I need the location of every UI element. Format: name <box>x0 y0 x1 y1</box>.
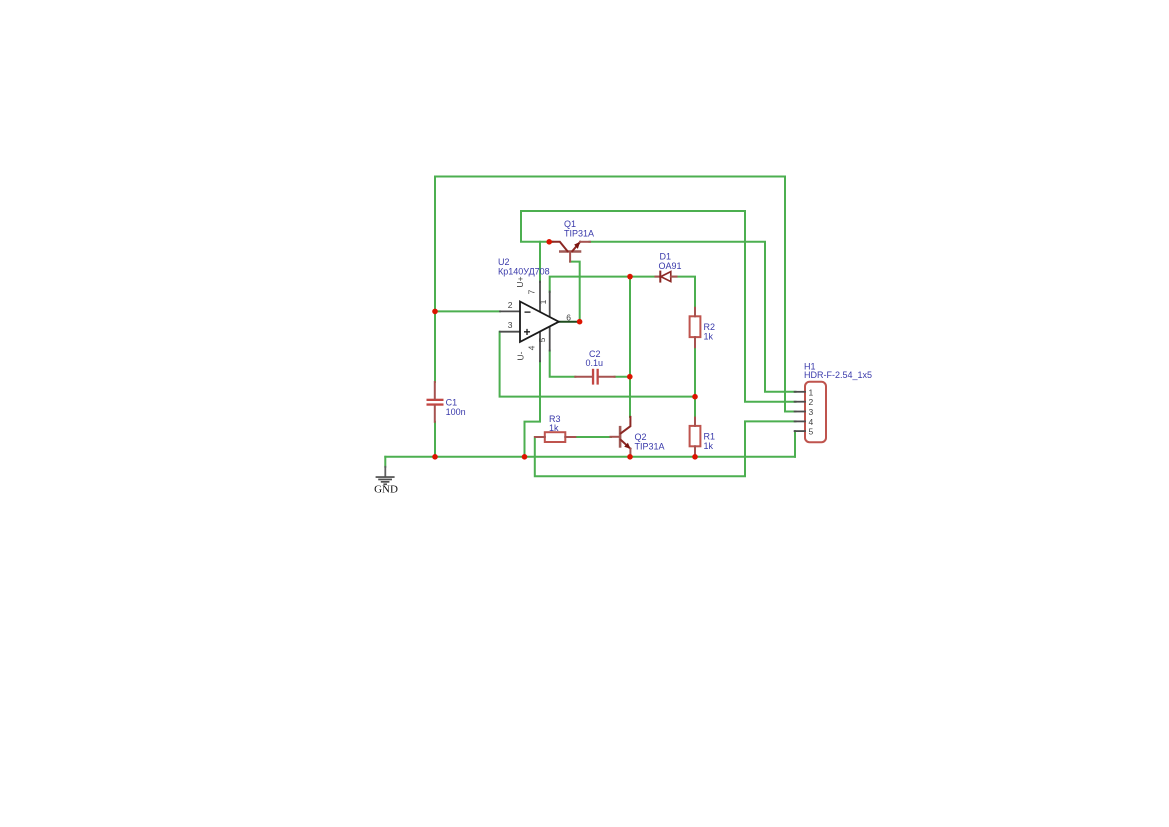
op-amp U1 pin 6 output line <box>559 321 580 323</box>
transistor Q1 <box>552 242 590 262</box>
wire opamp pin2 input <box>435 310 500 312</box>
wire opamp pin7 branch <box>539 242 541 282</box>
svg-text:U-: U- <box>516 351 526 360</box>
svg-text:5: 5 <box>809 427 814 437</box>
op-amp U1 pin 3 line <box>500 331 520 333</box>
svg-text:TIP31A: TIP31A <box>635 442 665 452</box>
svg-text:2: 2 <box>508 300 513 310</box>
svg-text:TIP31A: TIP31A <box>564 229 594 239</box>
svg-text:U2: U2 <box>498 257 510 267</box>
svg-text:1: 1 <box>809 387 814 397</box>
capacitor C2 plates <box>592 369 599 385</box>
wire opamp pin5 to C2 <box>550 351 576 377</box>
wire top rail to H1 pin3 <box>785 177 796 412</box>
wire R2 bottom to R1 top <box>694 347 696 418</box>
wire second rail <box>521 211 745 242</box>
svg-text:+: + <box>524 325 531 339</box>
resistor R1 <box>690 426 701 446</box>
ground symbol <box>376 467 395 485</box>
capacitor C2 leads <box>575 376 592 378</box>
wire opamp pin4 to GND rail <box>525 361 541 457</box>
svg-text:OA91: OA91 <box>659 261 682 271</box>
op-amp U1 pin 2 line <box>500 310 520 312</box>
svg-text:4: 4 <box>809 417 814 427</box>
junction dots <box>432 239 698 460</box>
wire Q1 base to opamp output <box>570 262 580 322</box>
wire opamp pin1 to D1 net <box>550 277 695 308</box>
svg-text:HDR-F-2.54_1x5: HDR-F-2.54_1x5 <box>804 370 872 380</box>
svg-text:1k: 1k <box>549 423 559 433</box>
svg-text:2: 2 <box>809 397 814 407</box>
op-amp U1 pin 4 line <box>539 332 541 362</box>
svg-text:1k: 1k <box>704 331 714 341</box>
connector H1 body <box>805 382 826 442</box>
wire mid column (D1 node to Q2 collector) <box>629 277 631 417</box>
resistor R2 <box>690 316 701 337</box>
svg-text:1k: 1k <box>704 441 714 451</box>
wire R3 to Q2 base <box>575 436 611 438</box>
op-amp U1 pin 5 line <box>549 325 551 351</box>
capacitor C1 plates <box>427 399 444 406</box>
svg-text:4: 4 <box>527 345 537 350</box>
svg-text:GND: GND <box>374 483 398 495</box>
op-amp U1 pin 7 line <box>539 282 541 313</box>
wire top rail <box>435 176 785 178</box>
svg-text:Q2: Q2 <box>635 432 647 442</box>
svg-text:Кр140УД708: Кр140УД708 <box>498 267 550 277</box>
svg-text:U+: U+ <box>515 276 525 287</box>
wire left vertical upper (top rail to C1) <box>434 177 436 383</box>
wire Q1 emitter to H1 pin1 <box>590 242 796 392</box>
svg-text:Q1: Q1 <box>564 219 576 229</box>
wire left vertical lower (C1 to GND rail) <box>434 422 436 457</box>
connector H1 pin stubs <box>795 392 805 431</box>
wire opamp pin3 feedback <box>500 332 695 397</box>
svg-text:100n: 100n <box>446 407 466 417</box>
svg-text:−: − <box>524 305 531 319</box>
op-amp U1 pin 1 line <box>549 292 551 319</box>
svg-text:5: 5 <box>537 337 547 342</box>
wire second rail to H1 pin2 <box>745 211 796 402</box>
op-amp U2 triangle body <box>520 302 559 342</box>
wire GND rail to H1 pin5 <box>794 431 796 457</box>
svg-text:3: 3 <box>508 320 513 330</box>
capacitor C1 leads <box>434 382 436 399</box>
svg-text:3: 3 <box>809 407 814 417</box>
svg-text:0.1u: 0.1u <box>586 358 604 368</box>
wire R3 left to H1 pin4 <box>535 421 796 476</box>
wire GND stub <box>384 457 386 467</box>
svg-text:6: 6 <box>566 312 571 322</box>
resistor R3 <box>545 432 566 442</box>
wire C2 right to mid column <box>615 376 630 378</box>
transistor Q2 <box>611 417 631 457</box>
diode D1 <box>656 276 661 278</box>
svg-text:7: 7 <box>527 289 537 294</box>
svg-text:1: 1 <box>538 299 548 304</box>
wire GND rail <box>385 456 795 458</box>
